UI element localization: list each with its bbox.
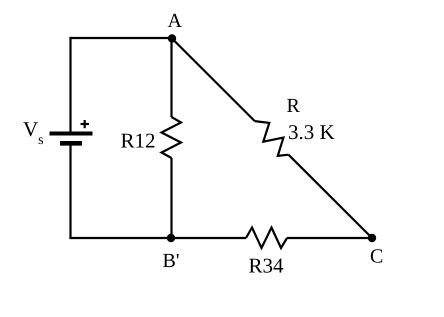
node C junction dot	[368, 234, 376, 242]
wire diagonal upper: node A to resistor R	[172, 39, 255, 122]
svg-text:R: R	[287, 95, 301, 117]
wire: node A down to R12 top	[170, 38, 172, 117]
svg-text:3.3 K: 3.3 K	[288, 120, 335, 144]
battery plus sign	[81, 120, 90, 128]
wire left rail upper: corner to battery top plate	[69, 37, 71, 133]
battery V_s short plate (-)	[60, 141, 82, 146]
wire bottom right: R34 to node C	[287, 237, 372, 239]
wire diagonal lower: resistor R to node C	[289, 155, 373, 238]
svg-text:R12: R12	[121, 129, 156, 153]
battery V_s long plate (+)	[50, 132, 93, 136]
wire left rail lower: battery to bottom corner	[69, 145, 71, 238]
svg-text:A: A	[168, 10, 183, 32]
svg-text:B': B'	[163, 250, 180, 272]
wire top: left rail to node A	[71, 37, 173, 39]
wire bottom left: corner through node B' to resistor R34	[69, 237, 246, 239]
node A junction dot	[168, 34, 176, 42]
node B' junction dot	[167, 234, 175, 242]
resistor R34 zigzag	[246, 228, 287, 249]
svg-text:R34: R34	[249, 254, 285, 278]
resistor R zigzag (diagonal)	[255, 121, 289, 156]
wire: R12 bottom to node B'	[170, 158, 172, 238]
resistor R12 zigzag	[162, 117, 182, 158]
svg-text:Vs: Vs	[23, 117, 44, 148]
svg-text:C: C	[370, 246, 383, 268]
